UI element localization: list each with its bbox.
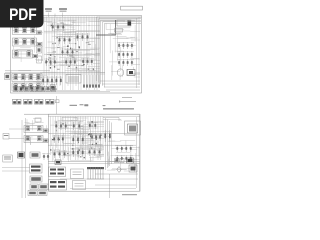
IC strip left C1 xyxy=(24,126,48,133)
component specks center xyxy=(48,25,94,70)
connector jack row xyxy=(13,99,55,104)
wire mesh bottom left xyxy=(11,71,56,92)
tuner box b inner xyxy=(128,124,138,133)
wire row mid2 xyxy=(44,53,95,55)
PDF badge xyxy=(0,0,44,28)
component specks bottom xyxy=(50,121,101,158)
page2 caption text xyxy=(103,108,134,110)
wire mesh right b xyxy=(107,140,140,172)
top bus wire 3 xyxy=(30,20,125,22)
top schematic outer border xyxy=(11,16,142,94)
top bus wire 1 xyxy=(11,16,142,18)
wire mesh bottom schematic xyxy=(50,118,104,162)
tuner box b outer xyxy=(125,121,141,135)
component label text smudges xyxy=(46,23,91,70)
right edge wires b xyxy=(136,117,138,188)
dark module box xyxy=(127,70,135,76)
transistor cluster S7 xyxy=(52,150,67,158)
wire bundle bottom schematic xyxy=(51,117,104,161)
right edge wires xyxy=(136,18,138,88)
mid bus wire xyxy=(40,71,105,73)
filter box column xyxy=(37,47,42,53)
transistor cluster S1 xyxy=(54,122,68,130)
bottom schematic outer border xyxy=(49,114,141,191)
component dark box left xyxy=(18,152,25,158)
transistor cluster Q5 xyxy=(44,58,57,66)
bus wire b3 xyxy=(48,160,140,162)
arrow mark xyxy=(119,100,136,103)
dark cluster right mid xyxy=(103,130,112,142)
bottom caption text xyxy=(122,194,137,195)
relay box dark xyxy=(55,160,61,165)
left feed wires xyxy=(21,120,23,198)
IF transformer box xyxy=(66,75,81,84)
IC block strip B2 xyxy=(12,83,42,91)
transistor cluster S3 xyxy=(87,122,98,129)
component pair right of B2 xyxy=(51,85,56,91)
top bus wire 2 xyxy=(24,18,138,20)
nested corner wires tr xyxy=(103,118,119,122)
IC strip left C2 xyxy=(24,136,48,143)
wire mesh right xyxy=(106,21,140,80)
small box right of jacks xyxy=(56,100,60,103)
label leader wires xyxy=(49,13,63,18)
transistor cluster right R1 xyxy=(117,42,134,49)
signal wire dark L xyxy=(96,20,116,35)
transistor cluster S5 xyxy=(71,135,85,144)
IC block strip A1 xyxy=(13,27,42,35)
transistor cluster Q3 xyxy=(75,33,90,41)
wire left joins xyxy=(5,69,50,71)
nested wires right b xyxy=(106,118,112,170)
feed wire into page2 xyxy=(56,96,58,114)
page background xyxy=(0,0,149,198)
bottom bus wires top schematic xyxy=(44,89,100,91)
IC block strip A3 xyxy=(13,50,38,58)
small box under border xyxy=(62,117,77,121)
wire across left xyxy=(2,167,30,169)
transistor cluster Q6 xyxy=(64,58,77,66)
wire left connect2 xyxy=(9,138,24,140)
module box center bottom xyxy=(71,169,84,179)
component box 30-40 xyxy=(30,152,40,158)
closing wires bottom b xyxy=(95,173,138,175)
component group right low xyxy=(115,145,133,152)
component boxes right top xyxy=(115,159,120,163)
speaker ellipse xyxy=(117,69,124,76)
small box top left b xyxy=(35,118,41,122)
transistor cluster S9 xyxy=(87,148,102,156)
wire mesh center top xyxy=(44,19,100,72)
component group right low2 xyxy=(115,155,133,162)
closing wire extra xyxy=(70,187,136,189)
left label box xyxy=(3,134,9,140)
transistor cluster Q4 xyxy=(60,48,75,56)
caption dash top page xyxy=(122,97,132,99)
terminal block T1 xyxy=(49,167,66,177)
connector comb bottom xyxy=(87,167,104,179)
input terminal box left edge xyxy=(5,74,11,80)
dark box right low xyxy=(127,158,134,163)
dark box right low2 xyxy=(129,165,137,172)
page2 header text xyxy=(70,105,78,106)
hatched box mid left xyxy=(30,164,43,173)
wire bundle center vertical xyxy=(44,17,100,91)
connector pin comb xyxy=(83,75,100,88)
module box center bottom2 xyxy=(73,181,86,190)
label header text right xyxy=(59,8,67,10)
component box small xyxy=(115,29,123,33)
nested wire corners right xyxy=(97,17,142,87)
transistor cluster S2 xyxy=(71,122,82,130)
IC block strip B1 xyxy=(12,74,42,82)
bus wire b1 xyxy=(48,132,136,134)
tuner box xyxy=(117,20,131,26)
transistor cluster S6 xyxy=(90,133,102,141)
wire mesh left top xyxy=(13,32,43,62)
IC block strip A2 xyxy=(13,38,42,46)
transistor T small xyxy=(42,153,50,160)
bus wire b2 xyxy=(48,144,136,146)
small text row under xyxy=(45,89,57,90)
component cluster lower left center xyxy=(41,76,63,85)
label header text left xyxy=(45,8,52,10)
wire mesh left b xyxy=(25,119,47,145)
label box SRS xyxy=(3,155,13,162)
terminal block T2 xyxy=(49,180,67,191)
ground stub wire xyxy=(109,174,111,198)
transistor cluster right R2 xyxy=(117,51,134,58)
wire left connect1 xyxy=(9,128,24,130)
small module boxes bottom left xyxy=(28,176,48,196)
transistor cluster Q1 xyxy=(50,23,66,31)
transistor cluster Q7 xyxy=(81,58,94,65)
closing wires bottom right xyxy=(100,81,140,90)
title box top right xyxy=(121,6,143,10)
component row bottom left dark xyxy=(14,86,56,91)
diamond symbol xyxy=(117,167,121,173)
transistor cluster right R3 xyxy=(117,59,134,66)
transistor cluster S8 xyxy=(71,148,85,157)
transistor cluster S4 xyxy=(52,135,65,143)
svg-text:PDF: PDF xyxy=(9,6,37,24)
transistor cluster Q2 xyxy=(57,36,72,44)
wire row mid1 xyxy=(44,30,100,32)
bottom schematic top border xyxy=(24,113,140,115)
